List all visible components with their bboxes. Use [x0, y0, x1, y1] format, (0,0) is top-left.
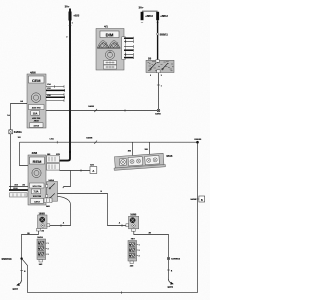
svg-text:24/2: 24/2: [130, 264, 134, 267]
ground terminal E/73: [168, 280, 174, 290]
svg-text:S5/B7/18: S5/B7/18: [2, 258, 13, 261]
splice S5/B7/18: [2, 257, 23, 261]
svg-text:S4/50: S4/50: [88, 105, 94, 108]
splice S4/50 on wire: [94, 109, 97, 112]
svg-text:3: 3: [48, 254, 49, 256]
tick on switch output: [157, 84, 160, 86]
wire thick elbow into REM pins: [60, 151, 71, 161]
svg-text:4/23 7/16: 4/23 7/16: [32, 106, 42, 109]
fuse bar +BB16: [141, 12, 144, 20]
svg-text:5/13 7/14: 5/13 7/14: [33, 185, 43, 188]
svg-text:2: 2: [66, 36, 67, 38]
tick on ground wire right: [167, 269, 170, 271]
svg-text:B: B: [201, 199, 203, 202]
node 53/66: [155, 109, 161, 115]
svg-text:2: 2: [48, 249, 49, 251]
connector SBB/11: [157, 33, 159, 35]
svg-text:2/14: 2/14: [47, 83, 51, 86]
svg-text:4/23 7/28: 4/23 7/28: [32, 117, 40, 120]
splice S4/5B on long wire: [94, 141, 97, 144]
lamp resistor block right (7B/7): [128, 239, 140, 268]
node 53/BB04: [167, 257, 180, 260]
tick on ground wire left: [20, 270, 23, 272]
svg-text:S4/50A: S4/50A: [14, 131, 22, 134]
CEM pin stub A: [46, 83, 64, 88]
svg-text:53/BB04: 53/BB04: [171, 258, 180, 261]
REM left connector row: [10, 193, 28, 197]
wire into REM thick: [9, 189, 28, 191]
svg-text:24/2: 24/2: [39, 263, 43, 266]
svg-text:DIM: DIM: [106, 32, 114, 37]
splice box S4/50A: [9, 130, 22, 134]
wire left lamp to splice: [22, 231, 39, 280]
wire right lamp to node: [134, 231, 169, 280]
svg-text:1: 1: [72, 22, 73, 24]
svg-text:SBB/11: SBB/11: [160, 33, 169, 36]
CEM pin stub E: [46, 99, 64, 102]
wire 24/24 to right lamp: [58, 194, 127, 226]
wire REM to inline connector 14/1: [60, 170, 91, 172]
inline connector 14/1: [90, 163, 97, 173]
svg-text:2/4: 2/4: [41, 229, 44, 232]
control module U DIM (4/1): [96, 25, 124, 70]
wire 24/24 to left lamp (feed): [50, 196, 71, 225]
DIM pin stub 2: [124, 40, 133, 43]
resistive meander element inside DIM: [97, 41, 120, 49]
svg-text:30+: 30+: [139, 5, 144, 9]
DIM pin stub 4 (thick): [124, 49, 133, 52]
svg-text:REM: REM: [33, 159, 42, 164]
REM right pin box row 2: [47, 164, 60, 171]
svg-text:7.5A: 7.5A: [33, 191, 38, 194]
svg-text:2: 2: [139, 250, 140, 252]
REM bottom pin box: [44, 198, 52, 208]
svg-text:3: 3: [161, 75, 162, 77]
bus riser to splice: [22, 259, 28, 293]
svg-text:102: 102: [18, 137, 21, 139]
CEM pin stub C: [46, 93, 64, 96]
wire 30-feed left vertical (thick): [69, 9, 71, 154]
svg-text:15A: 15A: [33, 112, 38, 115]
svg-text:24/9B: 24/9B: [190, 198, 196, 201]
svg-text:S4/5B: S4/5B: [86, 137, 92, 140]
ticks below fuse bars: [141, 21, 159, 23]
svg-text:4/58: 4/58: [32, 151, 38, 155]
tick before left lamp: [60, 224, 62, 227]
fuse bar +B23: [69, 12, 72, 21]
ignition switch (3/5): [146, 59, 174, 78]
fuse bar +BB12: [156, 12, 159, 20]
inline connector 24/9B: [190, 196, 204, 202]
svg-text:5/13 7/28: 5/13 7/28: [33, 196, 41, 198]
svg-text:CEM: CEM: [32, 78, 41, 83]
wire switch output down: [158, 73, 160, 109]
wire into REM thin: [9, 186, 28, 188]
instrument panel 1B1B (skewed): [113, 153, 165, 170]
svg-text:E39/05: E39/05: [194, 139, 202, 141]
tick on wire: [80, 169, 82, 172]
svg-text:53/66: 53/66: [155, 113, 161, 115]
DIM pin stub 5: [124, 53, 133, 56]
tick on wire: [124, 109, 126, 111]
svg-text:+BB12: +BB12: [160, 15, 168, 18]
svg-text:3B5: 3B5: [128, 151, 131, 153]
node E39/05: [194, 139, 202, 143]
bulb lamp right (16/9B): [126, 215, 139, 232]
corner wire down into REM: [20, 142, 29, 165]
CEM pin stub B (thick): [46, 88, 65, 92]
motor symbol inside DIM: [105, 50, 114, 59]
svg-text:30+: 30+: [65, 5, 70, 9]
bulb lamp left (16/9B): [36, 213, 49, 232]
wire E39/05 down right edge: [197, 142, 199, 292]
tick before right lamp: [121, 224, 123, 227]
svg-text:JB/23: JB/23: [34, 121, 39, 123]
lamp resistor block left (1B/1B): [37, 237, 49, 266]
svg-text:1B5: 1B5: [145, 149, 148, 151]
svg-text:1.5A: 1.5A: [49, 137, 54, 140]
svg-text:3J/13: 3J/13: [33, 126, 39, 128]
svg-text:24/8: 24/8: [46, 205, 50, 208]
wire feed to ignition switch: [157, 20, 159, 60]
wire tick + label: [56, 141, 58, 144]
svg-text:A: A: [92, 169, 94, 173]
DIM connector strip: [122, 37, 126, 60]
DIM pin stub 3: [124, 45, 133, 48]
svg-text:+BB16: +BB16: [145, 15, 153, 18]
svg-text:E/72: E/72: [13, 288, 19, 291]
wire 30-feed right top: [142, 10, 158, 12]
CEM pin stub D (thick): [46, 95, 65, 99]
ground bus wire bottom: [28, 292, 198, 294]
svg-text:2B5: 2B5: [47, 154, 50, 156]
svg-text:2: 2: [150, 75, 151, 77]
wire CEM left to S4/50A: [11, 104, 28, 131]
ground terminal E/72: [13, 280, 22, 291]
svg-text:E/73: E/73: [168, 286, 174, 289]
svg-text:1: 1: [48, 243, 49, 245]
tick on bus: [121, 291, 123, 294]
svg-text:1B1B: 1B1B: [166, 155, 172, 158]
tap wire to panel pin 2: [149, 142, 151, 154]
rear electronic module U REM (4/58): [28, 151, 46, 205]
svg-text:1: 1: [139, 245, 140, 247]
svg-text:4/1: 4/1: [104, 25, 108, 29]
tick on left feed: [69, 25, 72, 27]
tap wire to panel pin 1: [132, 142, 134, 156]
REM right pin box row 1: [47, 154, 61, 163]
svg-text:+B23: +B23: [73, 15, 79, 18]
wire S4/50A down to REM: [10, 134, 12, 190]
svg-text:2/2: 2/2: [22, 184, 25, 186]
switch 24/24: [46, 179, 58, 201]
wire CEM to node 53/66: [46, 110, 157, 112]
long wire to E39/05: [20, 141, 198, 143]
svg-text:3J/13: 3J/13: [34, 201, 40, 203]
wire branch to 24/24 lower pin: [63, 171, 71, 189]
DIM pin stub 1 (thick): [124, 37, 133, 40]
svg-text:31/3: 31/3: [14, 184, 18, 186]
svg-text:1: 1: [161, 85, 162, 87]
connector detail boxes inside DIM: [104, 61, 117, 70]
DIM pin stub 6 (thick): [124, 56, 133, 59]
svg-text:3: 3: [139, 256, 140, 258]
central electronic module U CEM (4/56): [27, 70, 46, 128]
